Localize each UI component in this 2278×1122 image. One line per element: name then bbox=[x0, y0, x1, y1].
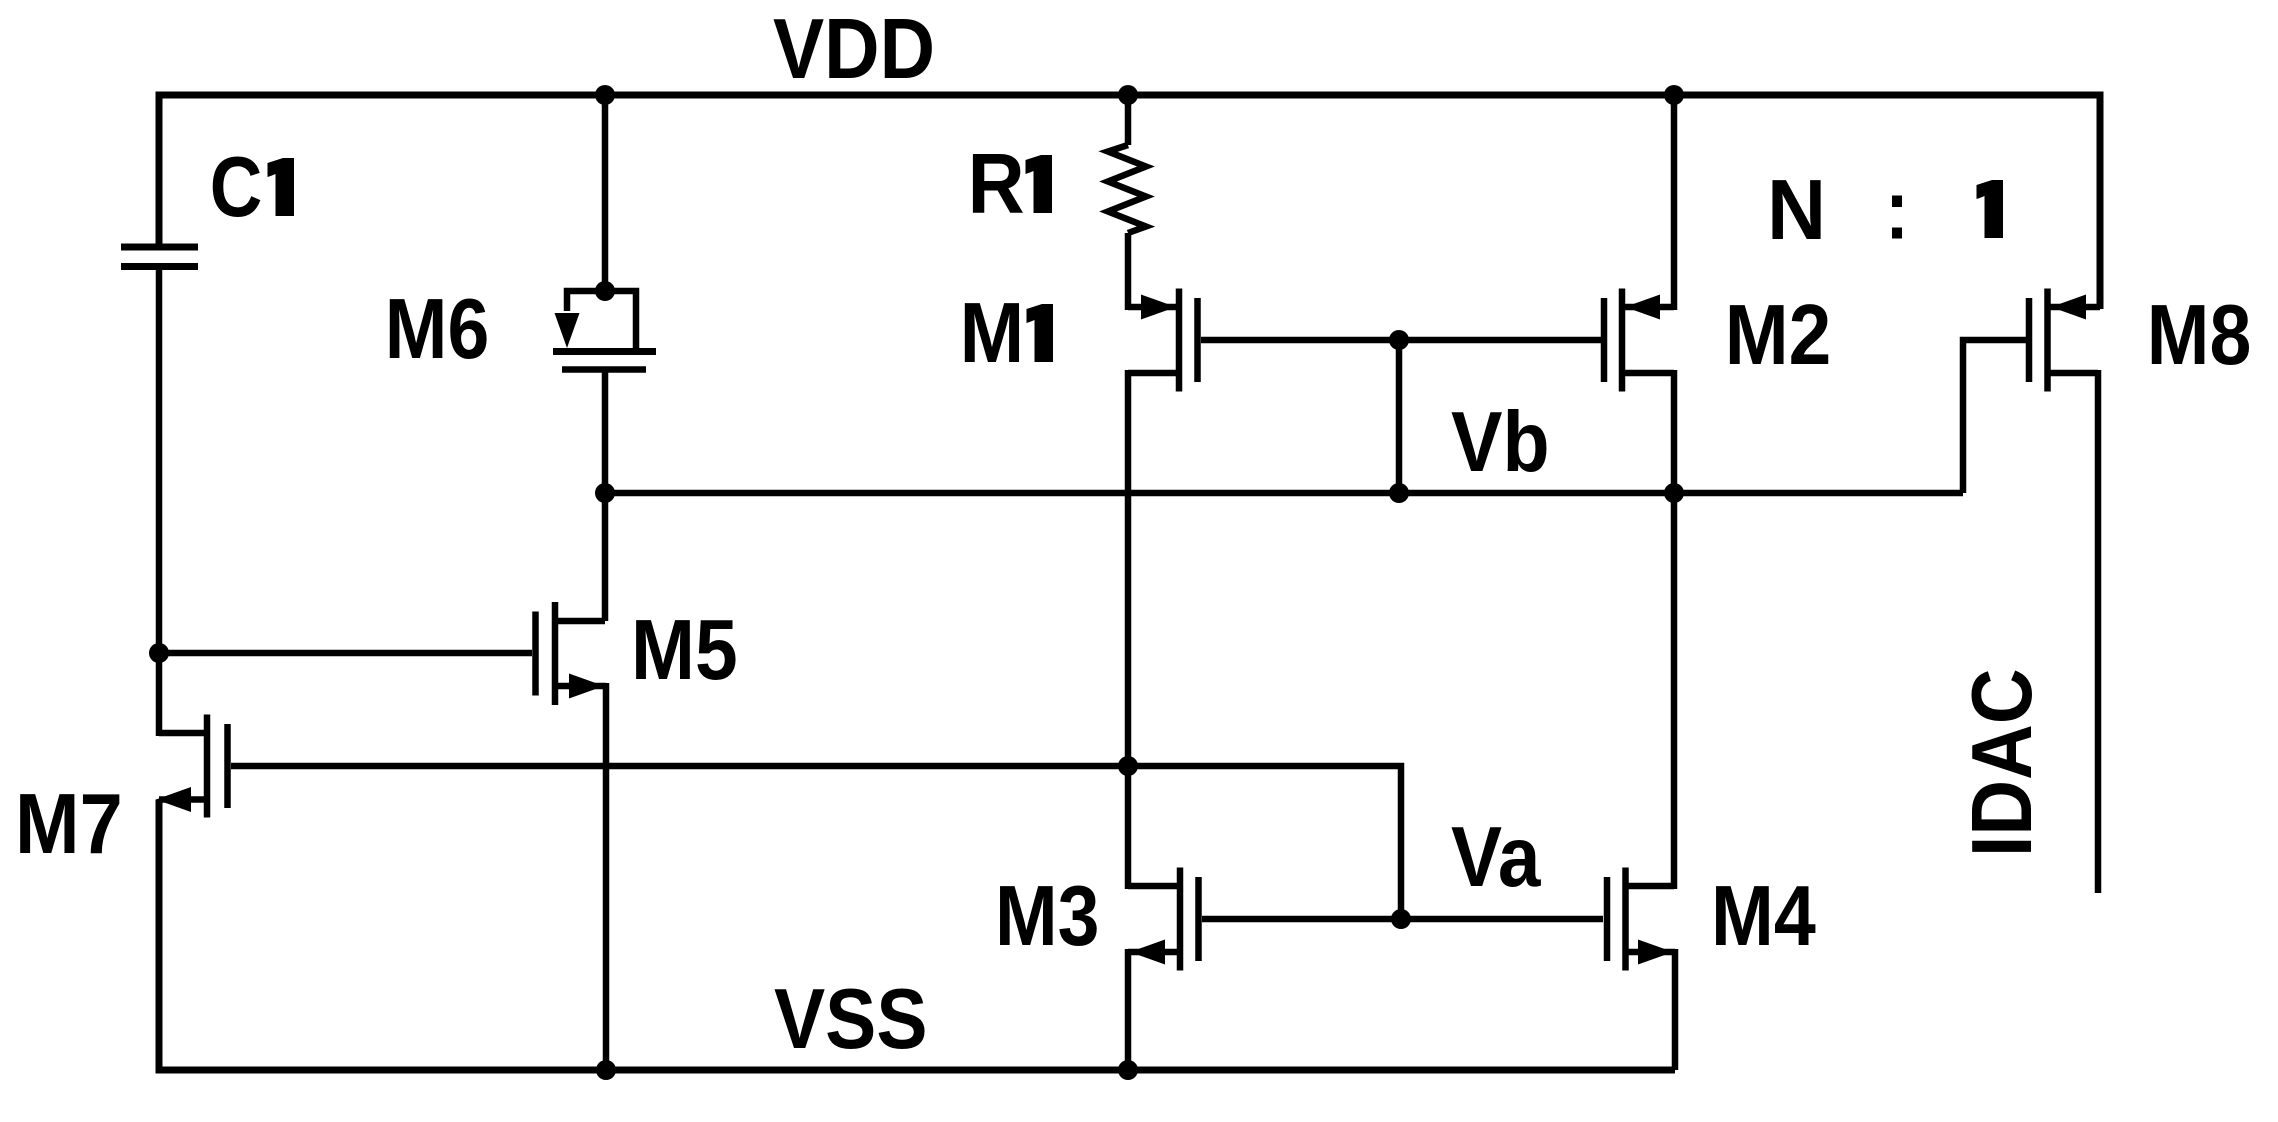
junction Vb-M6 bbox=[595, 483, 615, 503]
junction Vb-gate stem bbox=[1389, 483, 1409, 503]
svg-text:M3: M3 bbox=[995, 869, 1100, 964]
svg-text:M2: M2 bbox=[1725, 288, 1832, 383]
wire M2 drain drop through Vb to M4 drain bbox=[1671, 370, 1678, 889]
svg-text:M: M bbox=[960, 286, 1025, 381]
wire M5 source drop to VSS bbox=[603, 683, 610, 1070]
label M1 bbox=[960, 286, 1053, 381]
junction VSS-M5 bbox=[596, 1060, 616, 1080]
junction gate line to Vb stem bbox=[1389, 330, 1409, 350]
wire M8 gate stem down to Vb rail bbox=[1963, 340, 2026, 493]
junction VSS-M3 bbox=[1118, 1060, 1138, 1080]
junction mirror node M7 gate bbox=[1118, 756, 1138, 776]
transistor M4 (NMOS, mirrored, gate left) bbox=[1607, 868, 1675, 971]
transistor M2 (PMOS, mirrored, gate left) bbox=[1604, 289, 1674, 392]
wire M5 drain stem from Vb junction bbox=[602, 493, 609, 621]
wire M5 gate line to left rail bbox=[159, 650, 532, 657]
wire IDAC output line bbox=[2095, 370, 2102, 893]
wire M2 source drop from VDD bbox=[1671, 95, 1678, 310]
wire M4 source drop to VSS right end bbox=[1672, 949, 1679, 1070]
transistor M3 (NMOS, gate right) bbox=[1128, 868, 1199, 971]
capacitor C1 bbox=[121, 247, 198, 267]
wire Va gate line M3 to M4 bbox=[1202, 916, 1603, 923]
junction Va node bbox=[1391, 909, 1411, 929]
svg-text:VSS: VSS bbox=[774, 972, 928, 1067]
junction left rail M5 gate bbox=[149, 643, 169, 663]
wire mirror node over to Va stem bbox=[1128, 766, 1401, 919]
wire M3 source drop to VSS bbox=[1125, 949, 1132, 1070]
svg-text:M7: M7 bbox=[15, 777, 123, 872]
wire gate node stem down to Vb bbox=[1396, 340, 1403, 493]
wire gate line M1 to M2 bbox=[1201, 337, 1601, 344]
svg-text:IDAC: IDAC bbox=[1955, 668, 2050, 857]
wire M7 gate line to mirror node bbox=[231, 763, 1128, 770]
svg-text:R: R bbox=[968, 137, 1025, 232]
junction M6 source-drain tie bbox=[595, 281, 615, 301]
transistor M6 (diode-connected PMOS cap, gate down) bbox=[553, 291, 656, 370]
wire M6 gate stem down to Vb rail bbox=[602, 369, 609, 493]
svg-text:M6: M6 bbox=[385, 282, 490, 377]
junction VDD-R1 bbox=[1118, 85, 1138, 105]
svg-text:VDD: VDD bbox=[773, 2, 935, 97]
wire left rail from C1 down to M7 drain bbox=[156, 267, 163, 737]
svg-text:N: N bbox=[1767, 163, 1826, 258]
svg-text:Vb: Vb bbox=[1451, 395, 1550, 490]
wire M6 stem from VDD bbox=[602, 95, 609, 291]
svg-text:Va: Va bbox=[1451, 810, 1541, 905]
transistor M1 (PMOS, source from R1, gate right) bbox=[1128, 289, 1198, 392]
junction Vb-M2 drain bbox=[1664, 483, 1684, 503]
resistor R1 bbox=[1108, 95, 1146, 310]
junction VDD-M6 bbox=[595, 85, 615, 105]
wire Vb rail bbox=[605, 490, 1963, 497]
wire left rail from M7 source down to VSS corner bbox=[159, 800, 1675, 1071]
label R1 bbox=[968, 137, 1052, 232]
label C1 bbox=[210, 140, 294, 235]
svg-text:C: C bbox=[210, 140, 263, 235]
wire VDD rail with left and right corner drops bbox=[159, 95, 2100, 309]
transistor M8 (PMOS output mirror, gate left) bbox=[2029, 289, 2100, 392]
transistor M5 (NMOS, gate left to rail) bbox=[536, 602, 607, 705]
svg-text:M5: M5 bbox=[631, 603, 738, 698]
label N : 1 ratio bbox=[1767, 163, 2003, 258]
wire M1 drain drop to M3 drain bbox=[1125, 370, 1132, 889]
svg-text:M8: M8 bbox=[2147, 288, 2252, 383]
svg-text:M4: M4 bbox=[1711, 869, 1816, 964]
junction VDD-M2 bbox=[1664, 85, 1684, 105]
transistor M7 (NMOS in left rail, gate right) bbox=[156, 715, 228, 818]
